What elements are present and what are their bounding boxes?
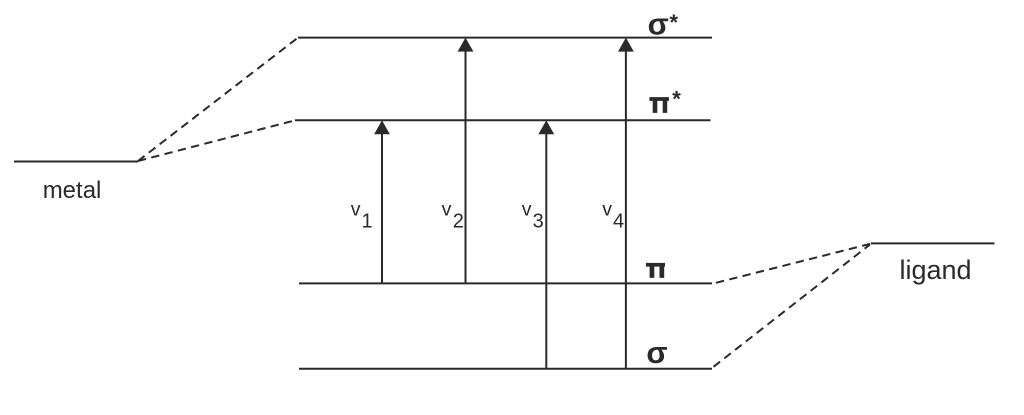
arrowhead v4 <box>618 38 634 52</box>
dashed correlation line metal to sigma-star <box>138 38 298 161</box>
svg-text:v: v <box>442 199 452 221</box>
svg-text:metal: metal <box>43 177 102 204</box>
dashed correlation line pi to ligand <box>716 244 871 283</box>
arrowhead v2 <box>458 38 474 52</box>
svg-text:2: 2 <box>453 210 464 232</box>
arrowhead v1 <box>374 120 390 134</box>
svg-text:*: * <box>670 10 679 35</box>
sigma energy level line <box>299 368 712 370</box>
svg-text:*: * <box>672 87 681 112</box>
svg-text:v: v <box>351 199 361 221</box>
svg-text:v: v <box>522 199 532 221</box>
ligand energy level line <box>871 242 995 244</box>
transition arrow v1 shaft (pi to pi-star) <box>381 132 383 283</box>
dashed correlation line metal to pi-star <box>138 121 295 162</box>
svg-text:3: 3 <box>533 210 544 232</box>
svg-text:ligand: ligand <box>900 255 972 285</box>
metal energy level line <box>14 161 138 163</box>
svg-text:4: 4 <box>613 210 624 232</box>
arrowhead v3 <box>538 120 554 134</box>
pi energy level line <box>299 282 712 284</box>
svg-text:v: v <box>602 199 612 221</box>
svg-text:σ: σ <box>648 7 669 42</box>
sigma-star energy level line <box>298 37 712 39</box>
transition arrow v4 shaft (sigma to sigma-star) <box>625 50 627 369</box>
pi-star energy level line <box>295 119 711 121</box>
transition arrow v2 shaft (pi to sigma-star) <box>465 50 467 284</box>
label pi <box>646 263 665 278</box>
label pi-star: pi glyph <box>649 97 669 113</box>
svg-text:σ: σ <box>646 335 667 370</box>
dashed correlation line sigma to ligand <box>714 245 871 367</box>
transition arrow v3 shaft (sigma to pi-star) <box>545 132 547 369</box>
svg-text:1: 1 <box>362 210 373 232</box>
